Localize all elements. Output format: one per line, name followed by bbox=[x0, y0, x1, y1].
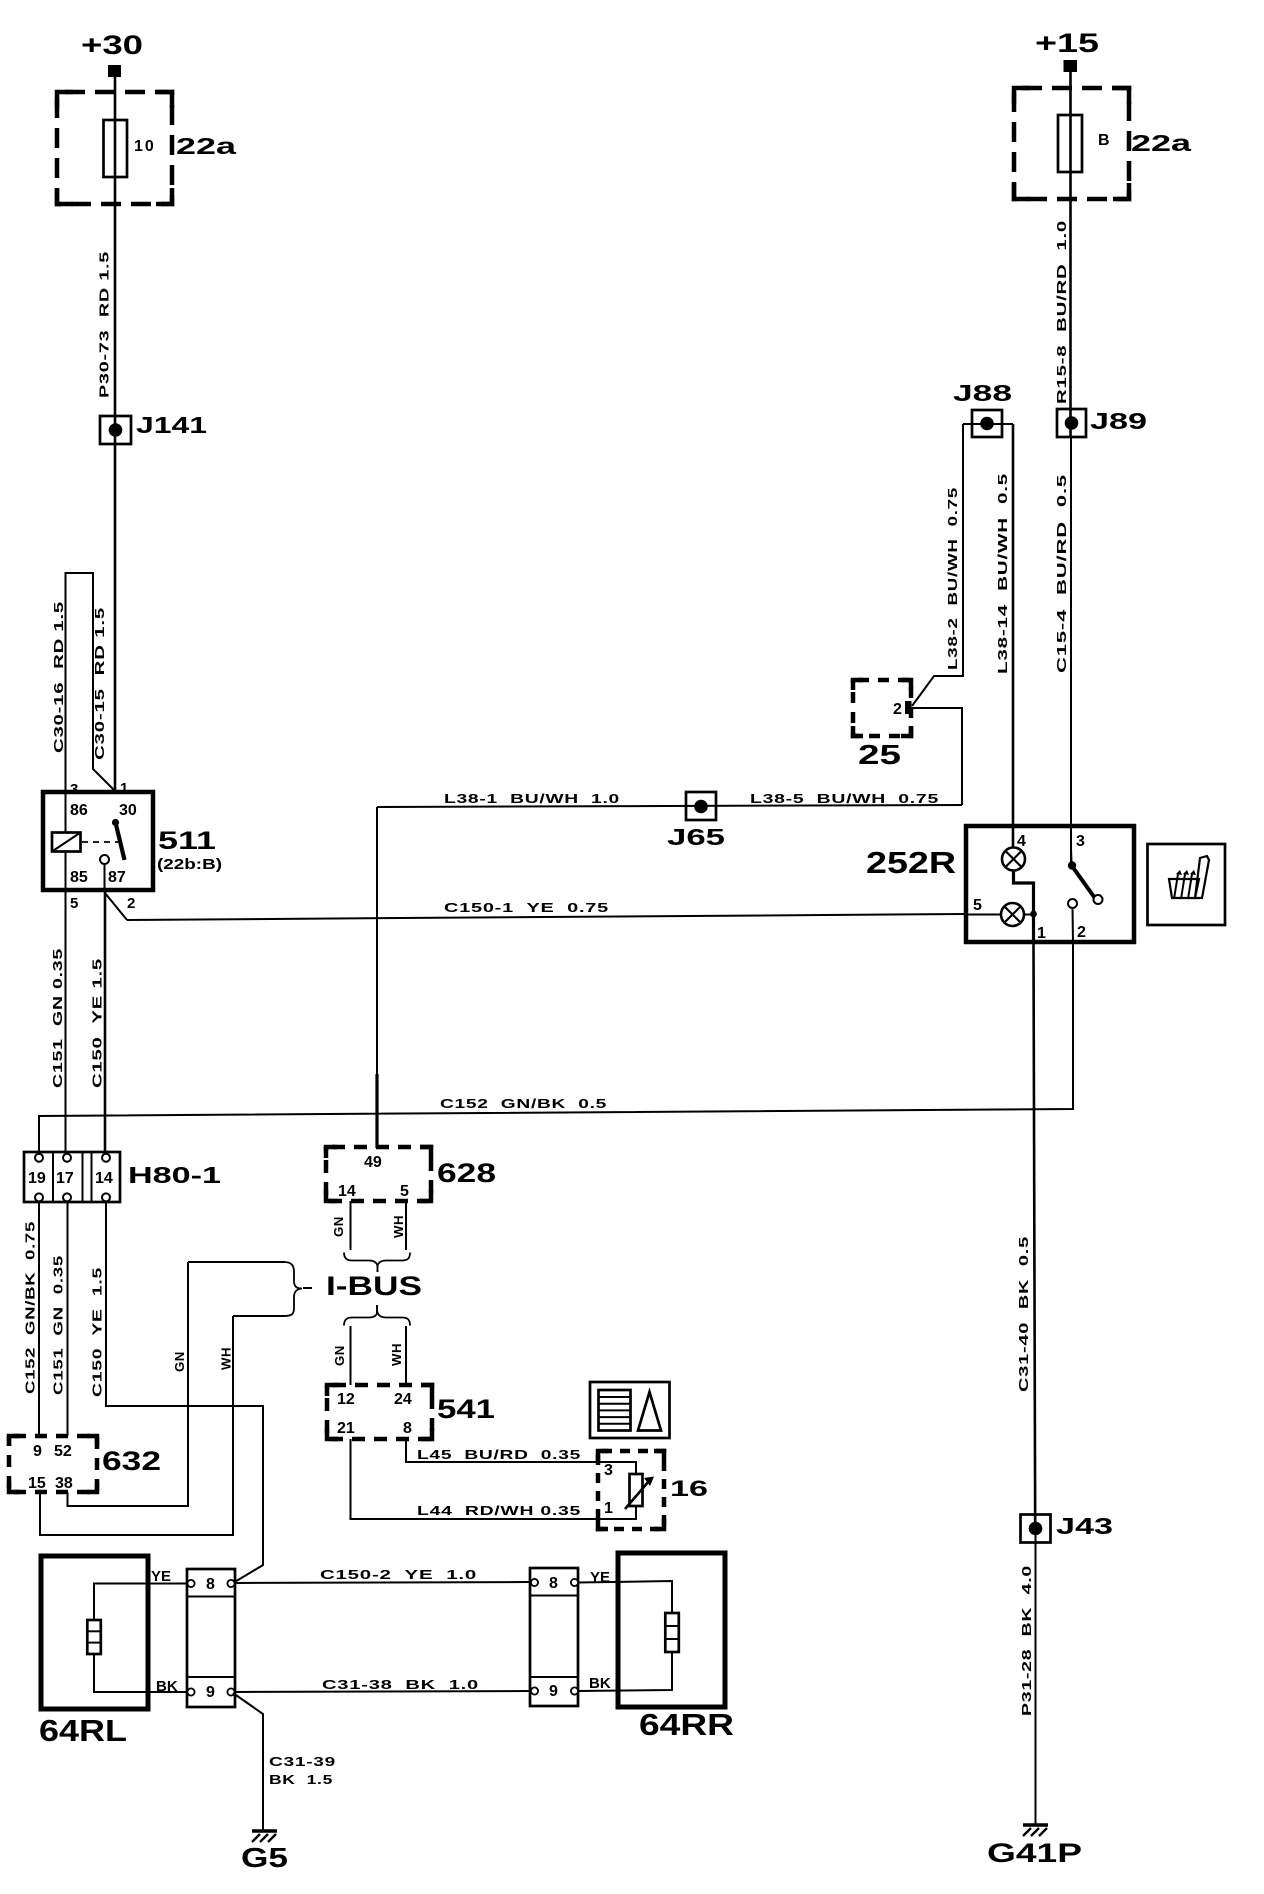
svg-text:5: 5 bbox=[70, 895, 78, 912]
wire C31-38 BK 1.0 bbox=[235, 1691, 530, 1692]
wire WH from 628 pin 5 bbox=[405, 1201, 407, 1250]
svg-text:P30-73 RD 1.5: P30-73 RD 1.5 bbox=[97, 251, 112, 398]
connector H80-1 bbox=[24, 1152, 120, 1202]
svg-text:WH: WH bbox=[391, 1215, 406, 1238]
wire L45 BU/RD 0.35 541 pin 8 to 16 pin 3 bbox=[406, 1439, 636, 1474]
connector 541 box bbox=[327, 1385, 432, 1439]
wire C150-2 YE 1.0 bbox=[235, 1582, 530, 1583]
svg-text:1: 1 bbox=[120, 780, 128, 797]
relay switch contact from pin 30 bbox=[100, 819, 125, 890]
wire C151 GN 0.35 H80-1 pin 17 to 632 pin 52 bbox=[67, 1202, 69, 1436]
svg-text:22a: 22a bbox=[1131, 130, 1191, 156]
svg-text:2: 2 bbox=[893, 701, 902, 718]
wire WH to 541 pin 24 bbox=[405, 1326, 407, 1385]
svg-text:15: 15 bbox=[28, 1475, 46, 1492]
wire P30-73 RD 1.5 from +30 through fuse to J141 bbox=[114, 77, 117, 416]
svg-text:3: 3 bbox=[604, 1462, 613, 1479]
svg-text:5: 5 bbox=[973, 897, 982, 914]
252R switch contact dot (pin 3) bbox=[1068, 848, 1076, 870]
seat connector right (pins 8/9) bbox=[530, 1568, 578, 1706]
wire 632 pin 38 to I-BUS GN bbox=[68, 1262, 189, 1506]
ground G5 bbox=[252, 1831, 277, 1842]
wire C31-40 BK 0.5 252R pin 1 to J43 bbox=[1034, 943, 1036, 1532]
svg-text:GN: GN bbox=[332, 1345, 347, 1366]
svg-text:8: 8 bbox=[549, 1575, 558, 1592]
svg-text:24: 24 bbox=[394, 1391, 412, 1408]
svg-text:I-BUS: I-BUS bbox=[326, 1271, 422, 1301]
svg-text:8: 8 bbox=[403, 1420, 412, 1437]
splice J43 bbox=[1021, 1515, 1051, 1543]
svg-text:252R: 252R bbox=[866, 845, 956, 880]
svg-text:L38-5 BU/WH 0.75: L38-5 BU/WH 0.75 bbox=[750, 791, 939, 806]
svg-text:C151 GN 0.35: C151 GN 0.35 bbox=[50, 948, 65, 1088]
svg-text:YE: YE bbox=[590, 1569, 610, 1586]
svg-text:C15-4 BU/RD 0.5: C15-4 BU/RD 0.5 bbox=[1054, 474, 1069, 673]
ground G41P bbox=[1023, 1825, 1048, 1836]
wire branch pin 87 to C150-1 bbox=[105, 893, 127, 920]
252R internal wire lamp to pin 1 bbox=[1014, 871, 1034, 915]
svg-text:C31-40 BK 0.5: C31-40 BK 0.5 bbox=[1016, 1236, 1031, 1392]
relay 511 box bbox=[43, 792, 153, 890]
wire GN from 628 pin 14 bbox=[350, 1201, 352, 1250]
svg-text:J43: J43 bbox=[1056, 1513, 1113, 1539]
svg-text:1: 1 bbox=[604, 1500, 613, 1517]
svg-text:G5: G5 bbox=[241, 1842, 288, 1873]
splice J89 bbox=[1057, 409, 1086, 437]
connector 632 box bbox=[9, 1436, 97, 1492]
temperature sensor icon box bbox=[590, 1382, 670, 1438]
svg-text:L44 RD/WH 0.35: L44 RD/WH 0.35 bbox=[417, 1503, 581, 1518]
svg-text:9: 9 bbox=[549, 1683, 558, 1700]
252R switch blade bbox=[1072, 866, 1095, 898]
svg-text:1: 1 bbox=[1037, 925, 1046, 942]
svg-text:C150-2 YE 1.0: C150-2 YE 1.0 bbox=[320, 1567, 477, 1582]
svg-text:87: 87 bbox=[108, 869, 126, 886]
fuse box 22a (right, fuse B) bbox=[1014, 88, 1129, 199]
variable resistor in 16 bbox=[625, 1474, 654, 1509]
svg-text:541: 541 bbox=[437, 1394, 495, 1424]
wire GN to 541 pin 12 bbox=[350, 1326, 352, 1385]
wire 25 pin 2 down to L38-5 bbox=[912, 708, 962, 805]
svg-text:J88: J88 bbox=[953, 380, 1012, 406]
svg-text:BK 1.5: BK 1.5 bbox=[269, 1772, 333, 1787]
I-BUS over-brace (541 pair) bbox=[344, 1313, 410, 1326]
svg-text:21: 21 bbox=[337, 1420, 355, 1437]
252R junction dot bbox=[1030, 911, 1037, 918]
svg-text:L38-1 BU/WH 1.0: L38-1 BU/WH 1.0 bbox=[444, 791, 620, 806]
svg-text:10: 10 bbox=[134, 138, 156, 155]
252R contact circle left (pin 2) bbox=[1068, 899, 1077, 908]
svg-text:C150 YE 1.5: C150 YE 1.5 bbox=[90, 958, 105, 1088]
wire C152 GN/BK 0.75 H80-1 pin 19 to 632 pin 9 bbox=[38, 1202, 40, 1436]
wire C151 GN 0.35 relay pin 85 to H80-1 pin 17 bbox=[65, 890, 67, 1153]
connector 628 box bbox=[326, 1147, 431, 1201]
252R pin 2 wire to box bottom bbox=[1072, 908, 1075, 943]
svg-text:9: 9 bbox=[33, 1443, 42, 1460]
svg-text:C30-15 RD 1.5: C30-15 RD 1.5 bbox=[92, 607, 107, 760]
svg-text:86: 86 bbox=[70, 802, 88, 819]
svg-text:632: 632 bbox=[102, 1446, 161, 1476]
svg-text:C152 GN/BK 0.5: C152 GN/BK 0.5 bbox=[440, 1096, 607, 1111]
64RL heating element bbox=[87, 1584, 186, 1693]
wire C150 YE 1.5 H80-1 pin 14 to seat connector 8 bbox=[106, 1202, 263, 1583]
svg-text:12: 12 bbox=[337, 1391, 355, 1408]
svg-text:38: 38 bbox=[55, 1475, 73, 1492]
wire C152 GN/BK 0.5 252R pin 2 to H80-1 pin 19 bbox=[39, 943, 1073, 1153]
heated seat element 64RR box bbox=[618, 1553, 725, 1707]
relay coil bbox=[52, 792, 81, 890]
I-BUS left brace bbox=[284, 1262, 302, 1316]
svg-text:52: 52 bbox=[54, 1443, 72, 1460]
svg-text:14: 14 bbox=[95, 1170, 113, 1187]
wire 632 pin 15 to I-BUS WH bbox=[40, 1316, 233, 1535]
I-BUS under-brace (628 pair) bbox=[344, 1253, 410, 1266]
svg-text:14: 14 bbox=[338, 1183, 356, 1200]
I-BUS tie dash upper bbox=[377, 1265, 379, 1272]
wire L44 RD/WH 0.35 541 pin 21 to 16 pin 1 bbox=[351, 1439, 637, 1519]
svg-text:L45 BU/RD 0.35: L45 BU/RD 0.35 bbox=[417, 1447, 581, 1462]
svg-text:64RL: 64RL bbox=[39, 1713, 127, 1748]
fuse element 10 bbox=[104, 120, 128, 177]
svg-text:J89: J89 bbox=[1090, 408, 1147, 434]
svg-text:64RR: 64RR bbox=[639, 1707, 734, 1742]
splice J141 bbox=[100, 416, 131, 444]
svg-text:85: 85 bbox=[70, 869, 88, 886]
252R pin 1 wire to box bottom bbox=[1032, 914, 1035, 943]
svg-text:WH: WH bbox=[389, 1343, 404, 1366]
svg-text:22a: 22a bbox=[176, 133, 236, 159]
svg-text:C30-16 RD 1.5: C30-16 RD 1.5 bbox=[51, 601, 66, 753]
svg-text:25: 25 bbox=[858, 739, 901, 770]
connector 25 box bbox=[853, 680, 911, 736]
svg-text:B: B bbox=[1098, 132, 1110, 149]
svg-text:L38-2 BU/WH 0.75: L38-2 BU/WH 0.75 bbox=[945, 487, 960, 670]
svg-text:J141: J141 bbox=[136, 412, 207, 438]
I-BUS left brace arms bbox=[188, 1262, 285, 1316]
252R indicator lamp upper bbox=[1002, 848, 1025, 871]
svg-text:+30: +30 bbox=[81, 30, 143, 60]
wire C15-4 BU/RD 0.5 J89 to 252R pin 3 bbox=[1070, 437, 1072, 862]
fuse box 22a (left, fuse 10) bbox=[57, 92, 172, 204]
wire C150 YE 1.5 relay pin 87 to H80-1 pin 14 bbox=[104, 890, 107, 1153]
svg-text:8: 8 bbox=[206, 1576, 215, 1593]
svg-text:G41P: G41P bbox=[987, 1838, 1082, 1868]
wire C150-1 YE 0.75 to 252R pin 5 bbox=[127, 914, 966, 920]
sensor 16 box bbox=[598, 1451, 664, 1529]
I-BUS tie dash lower bbox=[376, 1305, 378, 1313]
svg-text:9: 9 bbox=[206, 1684, 215, 1701]
svg-text:3: 3 bbox=[70, 781, 78, 798]
svg-text:49: 49 bbox=[364, 1154, 382, 1171]
seat connector left (pins 8/9) bbox=[187, 1569, 235, 1707]
I-BUS left brace tie dash bbox=[303, 1287, 312, 1289]
svg-text:L38-14 BU/WH 0.5: L38-14 BU/WH 0.5 bbox=[995, 473, 1010, 674]
svg-text:30: 30 bbox=[119, 802, 137, 819]
svg-text:P31-28 BK 4.0: P31-28 BK 4.0 bbox=[1019, 1565, 1034, 1716]
heated seat icon box bbox=[1148, 844, 1226, 925]
switch 252R box bbox=[966, 826, 1134, 942]
wire L38-1 BU/WH vertical to 628 pin 49 bbox=[376, 807, 378, 1074]
svg-text:GN: GN bbox=[172, 1351, 187, 1372]
relay coil-contact dashed link bbox=[82, 841, 118, 843]
splice J88 bbox=[963, 410, 1013, 437]
svg-text:16: 16 bbox=[670, 1476, 708, 1501]
wire L38-1 / L38-5 BU/WH horizontal run bbox=[377, 805, 962, 807]
252R contact circle right bbox=[1094, 895, 1103, 904]
wire RD 1.5 J141 to relay pin 1/30 bbox=[114, 444, 117, 792]
svg-text:C31-39: C31-39 bbox=[269, 1754, 336, 1769]
svg-text:C150-1 YE 0.75: C150-1 YE 0.75 bbox=[444, 900, 609, 915]
wire L38-2 BU/WH 0.75 J88 to 25 pin 2 bbox=[912, 424, 963, 706]
svg-text:J65: J65 bbox=[667, 824, 725, 850]
64RR heating element bbox=[578, 1581, 679, 1691]
wire R15-8 BU/RD 1.0 from +15 through fuse to J89 bbox=[1069, 72, 1072, 437]
wire P31-28 BK 4.0 J43 to G41P bbox=[1035, 1528, 1037, 1824]
252R indicator lamp lower (pin 5) bbox=[966, 903, 1034, 926]
splice J65 bbox=[686, 792, 716, 820]
node +15 terminal square bbox=[1064, 60, 1078, 72]
wire L38-14 BU/WH 0.5 J88 to 252R pin 4 bbox=[1012, 424, 1015, 848]
svg-text:R15-8 BU/RD 1.0: R15-8 BU/RD 1.0 bbox=[1054, 220, 1069, 404]
svg-text:C151 GN 0.35: C151 GN 0.35 bbox=[51, 1255, 66, 1395]
wire branch loop C30-16 / C30-15 to relay bbox=[66, 573, 115, 792]
node +30 terminal square bbox=[108, 65, 121, 77]
svg-text:+15: +15 bbox=[1035, 28, 1099, 58]
svg-text:C150 YE 1.5: C150 YE 1.5 bbox=[90, 1267, 105, 1397]
svg-text:GN: GN bbox=[331, 1216, 346, 1237]
svg-text:WH: WH bbox=[219, 1347, 234, 1370]
svg-text:2: 2 bbox=[127, 895, 135, 912]
heated seat element 64RL box bbox=[41, 1556, 148, 1709]
svg-text:3: 3 bbox=[1076, 833, 1085, 850]
svg-text:YE: YE bbox=[151, 1568, 171, 1585]
svg-text:BK: BK bbox=[156, 1678, 178, 1695]
25 pin 2 tick bbox=[905, 701, 912, 714]
svg-text:19: 19 bbox=[28, 1170, 46, 1187]
svg-text:628: 628 bbox=[437, 1158, 496, 1188]
fuse element B bbox=[1058, 115, 1082, 172]
wire C31-39 BK 1.5 to ground G5 bbox=[233, 1693, 263, 1830]
svg-text:17: 17 bbox=[56, 1170, 74, 1187]
svg-text:5: 5 bbox=[400, 1183, 409, 1200]
svg-text:C31-38 BK 1.0: C31-38 BK 1.0 bbox=[322, 1677, 479, 1692]
svg-text:BK: BK bbox=[589, 1675, 611, 1692]
svg-text:2: 2 bbox=[1077, 924, 1086, 941]
svg-text:511: 511 bbox=[158, 827, 216, 855]
svg-text:H80-1: H80-1 bbox=[128, 1162, 221, 1188]
svg-text:(22b:B): (22b:B) bbox=[157, 856, 222, 873]
svg-text:C152 GN/BK 0.75: C152 GN/BK 0.75 bbox=[23, 1221, 38, 1394]
